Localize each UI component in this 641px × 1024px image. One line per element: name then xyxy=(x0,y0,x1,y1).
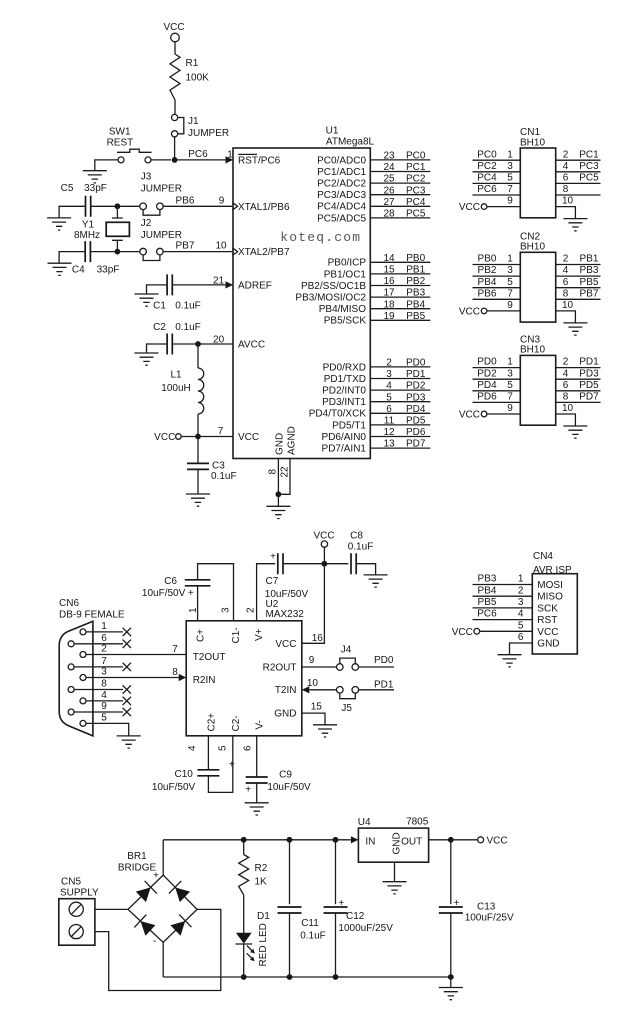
svg-text:CN4: CN4 xyxy=(533,551,553,562)
pin 11 stub / net PD5 xyxy=(370,424,430,426)
wire U4 OUT to VCC xyxy=(429,839,478,841)
connector CN5 body xyxy=(59,899,95,946)
svg-text:PD6: PD6 xyxy=(406,427,426,438)
pin 6 stub / net PD4 xyxy=(370,412,430,414)
wire C7 to VCC node xyxy=(283,563,348,565)
svg-text:11: 11 xyxy=(384,416,395,427)
wire C4 to ground xyxy=(59,252,85,264)
CN3 pin 4 / net PD3 xyxy=(556,378,601,380)
svg-text:PD6: PD6 xyxy=(477,392,497,403)
CN5 screw terminal 2 xyxy=(69,925,83,939)
arrow into T2IN xyxy=(302,686,310,693)
wire C6 bottom to pin1 xyxy=(197,586,199,621)
svg-text:9: 9 xyxy=(507,196,513,207)
svg-text:10uF/50V: 10uF/50V xyxy=(267,782,311,793)
svg-text:PC5: PC5 xyxy=(406,209,426,220)
svg-text:16: 16 xyxy=(383,276,395,287)
svg-text:7: 7 xyxy=(507,288,513,299)
svg-text:PB6: PB6 xyxy=(478,288,497,299)
svg-text:SUPPLY: SUPPLY xyxy=(60,888,99,899)
pin 14 stub / net PB0 xyxy=(370,261,430,263)
junction rail-C13 bottom xyxy=(448,974,454,980)
svg-text:18: 18 xyxy=(383,299,395,310)
wire C13 to rail xyxy=(450,913,452,977)
CN3 pin 7 / net PD6 xyxy=(473,401,521,403)
svg-text:PD7/AIN1: PD7/AIN1 xyxy=(322,444,367,455)
ground at C4 xyxy=(48,263,72,275)
svg-text:V+: V+ xyxy=(254,628,265,641)
svg-text:PD4: PD4 xyxy=(477,380,497,391)
CN4 pin 3 / net PB5 xyxy=(473,607,533,609)
junction rail-C11 bottom xyxy=(287,974,293,980)
svg-text:PC3: PC3 xyxy=(406,185,426,196)
svg-text:RST: RST xyxy=(537,615,557,626)
pin 15 stub / net PB1 xyxy=(370,273,430,275)
svg-text:J5: J5 xyxy=(341,703,352,714)
wire rail to C12 xyxy=(335,840,337,904)
svg-text:14: 14 xyxy=(383,253,395,264)
CN2 pin 7 / net PB6 xyxy=(473,298,521,300)
wire VCC node to pin16 xyxy=(302,564,325,644)
wire rail to ground xyxy=(450,977,452,988)
CN6 pin 4 contact xyxy=(80,698,86,704)
capacitor C6 xyxy=(185,580,211,586)
svg-text:33pF: 33pF xyxy=(84,183,107,194)
wire C10 to pin5 xyxy=(208,736,232,793)
ground at CN6 xyxy=(117,736,141,748)
wire CN6 pin 1 xyxy=(86,631,123,633)
svg-text:6: 6 xyxy=(243,745,254,751)
connector CN1 body xyxy=(520,148,555,218)
no-connect X on pin 9 xyxy=(123,708,131,716)
wire to U1 ground xyxy=(277,494,279,506)
svg-text:3: 3 xyxy=(101,667,107,678)
wire J5 to net PD1 xyxy=(359,689,395,691)
svg-text:PC2/ADC2: PC2/ADC2 xyxy=(317,179,366,190)
svg-text:BR1: BR1 xyxy=(127,851,147,862)
svg-text:PC0: PC0 xyxy=(406,151,426,162)
wire rail to R2 xyxy=(243,840,245,855)
svg-text:PC4: PC4 xyxy=(406,197,426,208)
svg-text:L1: L1 xyxy=(170,370,182,381)
svg-text:0.1uF: 0.1uF xyxy=(348,541,374,552)
wire R1 to J1 xyxy=(174,100,176,115)
svg-text:PB4: PB4 xyxy=(478,277,497,288)
svg-text:1: 1 xyxy=(518,574,524,585)
pin 17 stub / net PB3 xyxy=(370,296,430,298)
svg-text:100uF/25V: 100uF/25V xyxy=(465,913,514,924)
capacitor C5 xyxy=(86,196,91,217)
wire C4 to J2 xyxy=(90,251,140,253)
capacitor C13 xyxy=(439,907,463,913)
svg-text:PD1: PD1 xyxy=(406,369,426,380)
svg-text:33pF: 33pF xyxy=(97,264,120,275)
arrow into RST/PC6 xyxy=(226,156,234,163)
svg-text:+: + xyxy=(153,871,159,882)
diode BR1 D-topright xyxy=(169,881,191,903)
svg-text:28: 28 xyxy=(383,209,395,220)
svg-text:PC5/ADC5: PC5/ADC5 xyxy=(317,213,366,224)
svg-text:100K: 100K xyxy=(186,73,210,84)
svg-text:PB3/MOSI/OC2: PB3/MOSI/OC2 xyxy=(295,293,366,304)
svg-text:0.1uF: 0.1uF xyxy=(300,931,326,942)
pin 27 stub / net PC4 xyxy=(370,205,430,207)
wire VCC terminal to U1 pin7 xyxy=(181,436,233,438)
svg-text:26: 26 xyxy=(383,185,395,196)
svg-text:27: 27 xyxy=(383,197,395,208)
wire CN5 pin1 to bridge AC1 xyxy=(95,908,128,910)
svg-text:PB5: PB5 xyxy=(580,277,599,288)
pin 25 stub / net PC2 xyxy=(370,182,430,184)
svg-text:AVCC: AVCC xyxy=(238,340,265,351)
CN4 pin 1 / net PB3 xyxy=(473,584,533,586)
svg-text:PC2: PC2 xyxy=(477,161,497,172)
junction rail-C11 xyxy=(287,837,293,843)
svg-text:9: 9 xyxy=(219,195,225,206)
svg-text:+: + xyxy=(270,552,276,563)
svg-text:4: 4 xyxy=(518,609,524,620)
svg-text:3: 3 xyxy=(507,368,513,379)
svg-text:1: 1 xyxy=(507,254,513,265)
no-connect X on pin 8 xyxy=(123,685,131,693)
svg-text:RED LED: RED LED xyxy=(258,923,269,966)
svg-text:7: 7 xyxy=(172,644,178,655)
CN3 pin 10 to ground xyxy=(556,414,576,426)
svg-text:BH10: BH10 xyxy=(520,345,545,356)
pin 23 stub / net PC0 xyxy=(370,159,430,161)
svg-text:PD5: PD5 xyxy=(406,416,426,427)
op-amp U2 body (IC MAX232) xyxy=(186,621,302,736)
svg-text:PB6: PB6 xyxy=(176,195,195,206)
svg-text:VCC: VCC xyxy=(459,202,480,213)
svg-text:JUMPER: JUMPER xyxy=(141,184,182,195)
svg-text:3: 3 xyxy=(220,607,231,613)
svg-text:5: 5 xyxy=(518,620,524,631)
svg-text:SCK: SCK xyxy=(537,603,558,614)
svg-text:0.1uF: 0.1uF xyxy=(211,471,237,482)
wire DC+ rail xyxy=(163,839,351,841)
wire rail to C11 xyxy=(289,840,291,904)
svg-text:6: 6 xyxy=(563,277,569,288)
svg-text:PB4/MISO: PB4/MISO xyxy=(319,304,366,315)
jumper J5 xyxy=(340,693,356,699)
svg-text:PB4: PB4 xyxy=(478,585,497,596)
capacitor C9 xyxy=(246,777,268,783)
ground at CN4 xyxy=(498,655,522,667)
svg-text:7: 7 xyxy=(507,184,513,195)
svg-text:PC3: PC3 xyxy=(579,161,599,172)
svg-text:+: + xyxy=(229,759,235,770)
svg-text:C3: C3 xyxy=(212,461,225,472)
svg-text:C11: C11 xyxy=(301,918,319,929)
svg-text:VCC: VCC xyxy=(313,531,334,542)
svg-text:PB4: PB4 xyxy=(406,299,425,310)
svg-text:8: 8 xyxy=(563,392,569,403)
svg-text:J4: J4 xyxy=(341,644,352,655)
svg-text:+: + xyxy=(245,784,251,795)
pin 3 stub / net PD1 xyxy=(370,378,430,380)
svg-text:PC1: PC1 xyxy=(406,162,426,173)
connector CN4 body xyxy=(532,574,577,654)
svg-text:PB7: PB7 xyxy=(580,288,599,299)
svg-text:PC6: PC6 xyxy=(477,609,497,620)
arrow into ADREF xyxy=(226,281,234,288)
svg-text:8: 8 xyxy=(172,667,178,678)
svg-text:MISO: MISO xyxy=(537,592,563,603)
svg-text:Y1: Y1 xyxy=(82,220,95,231)
svg-text:PB3: PB3 xyxy=(580,265,599,276)
svg-text:ADREF: ADREF xyxy=(238,280,272,291)
svg-text:U1: U1 xyxy=(326,126,339,137)
svg-text:C7: C7 xyxy=(266,576,279,587)
svg-text:1: 1 xyxy=(507,357,513,368)
svg-text:2: 2 xyxy=(563,149,569,160)
svg-text:REST: REST xyxy=(107,138,134,149)
svg-text:6: 6 xyxy=(563,173,569,184)
pin 19 stub / net PB5 xyxy=(370,319,430,321)
svg-text:10uF/50V: 10uF/50V xyxy=(152,782,196,793)
VCC terminal mid xyxy=(321,541,327,547)
no-connect X on pin 7 xyxy=(123,663,131,671)
svg-text:4: 4 xyxy=(386,381,392,392)
CN2 pin 2 / net PB1 xyxy=(556,264,601,266)
svg-text:23: 23 xyxy=(383,151,395,162)
svg-text:koteq.com: koteq.com xyxy=(280,230,361,245)
pin 4 stub / net PD2 xyxy=(370,389,430,391)
svg-text:CN5: CN5 xyxy=(61,876,81,887)
wire CN6 pin 7 xyxy=(74,666,123,668)
wire C2 to ground xyxy=(147,344,168,353)
svg-text:2: 2 xyxy=(563,357,569,368)
jumper J2 xyxy=(143,255,160,261)
CN2 pin 3 / net PB2 xyxy=(473,275,521,277)
svg-text:2: 2 xyxy=(563,254,569,265)
wire VCC node to C3 xyxy=(197,437,199,464)
svg-text:PD3: PD3 xyxy=(579,368,599,379)
svg-text:V-: V- xyxy=(255,720,266,729)
svg-text:1: 1 xyxy=(101,621,107,632)
svg-text:0.1uF: 0.1uF xyxy=(175,300,201,311)
svg-text:4: 4 xyxy=(563,161,569,172)
ground at C5 xyxy=(47,218,71,230)
svg-text:PC1/ADC1: PC1/ADC1 xyxy=(317,167,366,178)
CN1 pin 10 to ground xyxy=(556,207,576,219)
jumper J3 xyxy=(143,210,160,216)
svg-text:6: 6 xyxy=(101,633,107,644)
svg-text:1: 1 xyxy=(188,607,199,613)
svg-text:VCC: VCC xyxy=(459,306,480,317)
svg-text:PB0: PB0 xyxy=(478,254,497,265)
svg-text:VCC: VCC xyxy=(452,627,473,638)
svg-text:J3: J3 xyxy=(141,172,152,183)
ground at U1 xyxy=(266,506,290,518)
junction GND/AGND xyxy=(276,491,282,497)
svg-text:C2: C2 xyxy=(153,322,166,333)
inductor L1 xyxy=(198,368,204,414)
svg-text:100uH: 100uH xyxy=(161,383,190,394)
wire C2 to U1 AVCC xyxy=(172,343,233,345)
svg-text:MAX232: MAX232 xyxy=(266,609,305,620)
svg-text:C6: C6 xyxy=(164,576,177,587)
svg-text:C5: C5 xyxy=(61,183,74,194)
svg-text:9: 9 xyxy=(309,655,315,666)
wire C6 top to pin3 xyxy=(198,564,234,621)
svg-text:D1: D1 xyxy=(257,911,270,922)
svg-text:PB7: PB7 xyxy=(176,240,195,251)
svg-text:RST/PC6: RST/PC6 xyxy=(238,155,281,166)
svg-text:2: 2 xyxy=(386,358,392,369)
svg-text:PB0: PB0 xyxy=(406,253,425,264)
CN6 pin 6 contact xyxy=(68,641,74,647)
CN3 pin 2 / net PD1 xyxy=(556,367,601,369)
wire pin4 down to C10 xyxy=(207,736,209,770)
svg-text:PC6: PC6 xyxy=(477,184,497,195)
svg-text:PD5: PD5 xyxy=(579,380,599,391)
pin 16 stub / net PB2 xyxy=(370,285,430,287)
svg-text:4: 4 xyxy=(563,368,569,379)
pin 12 stub / net PD6 xyxy=(370,436,430,438)
wire J2 to U1 XTAL2 xyxy=(163,251,232,253)
svg-text:VCC: VCC xyxy=(537,627,558,638)
svg-text:6: 6 xyxy=(386,404,392,415)
svg-text:PC5: PC5 xyxy=(579,173,599,184)
svg-text:PD5/T1: PD5/T1 xyxy=(332,420,366,431)
ground at CN2 xyxy=(563,323,587,335)
svg-text:MOSI: MOSI xyxy=(537,580,563,591)
svg-text:+: + xyxy=(188,588,194,599)
svg-text:PB2: PB2 xyxy=(478,265,497,276)
svg-text:PD2: PD2 xyxy=(406,381,426,392)
wire VCC terminal down xyxy=(323,547,325,563)
svg-text:PD0/RXD: PD0/RXD xyxy=(323,362,366,373)
arrow into R2IN xyxy=(179,674,187,681)
svg-text:PD3/INT1: PD3/INT1 xyxy=(322,397,366,408)
junction PC6 node xyxy=(172,157,178,163)
connector CN3 body xyxy=(520,355,555,425)
junction crystal top xyxy=(115,203,121,209)
svg-text:OUT: OUT xyxy=(401,837,422,848)
svg-text:4: 4 xyxy=(187,745,198,751)
bridge BR1 outline xyxy=(128,875,197,942)
capacitor C12 xyxy=(324,907,348,913)
op-amp U1 body (IC ATMega8L) xyxy=(233,148,370,459)
svg-text:5: 5 xyxy=(101,713,107,724)
svg-text:BRIDGE: BRIDGE xyxy=(118,863,157,874)
svg-text:12: 12 xyxy=(383,427,395,438)
svg-text:PC3/ADC3: PC3/ADC3 xyxy=(317,190,366,201)
svg-text:22: 22 xyxy=(279,466,290,478)
wire C5 to ground xyxy=(59,206,85,218)
jumper J4 xyxy=(340,658,356,664)
svg-text:15: 15 xyxy=(311,702,323,713)
svg-text:3: 3 xyxy=(507,161,513,172)
svg-text:PC0/ADC0: PC0/ADC0 xyxy=(317,155,366,166)
svg-text:10uF/50V: 10uF/50V xyxy=(142,588,186,599)
wire C9 to ground xyxy=(256,783,258,803)
CN1 pin 1 / net PC0 xyxy=(473,159,521,161)
svg-text:9: 9 xyxy=(507,403,513,414)
svg-text:5: 5 xyxy=(507,277,513,288)
CN2 pin 10 to ground xyxy=(556,311,576,323)
CN2 pin 5 / net PB4 xyxy=(473,287,521,289)
pin 18 stub / net PB4 xyxy=(370,308,430,310)
svg-text:R2IN: R2IN xyxy=(193,675,216,686)
junction VCC node mid xyxy=(322,561,328,567)
wire C8 to ground xyxy=(356,564,375,575)
wire R2 to D1 xyxy=(243,895,245,933)
svg-text:10: 10 xyxy=(215,240,227,251)
ground at C2 xyxy=(135,353,159,365)
svg-text:GND: GND xyxy=(275,433,286,455)
svg-text:5: 5 xyxy=(218,745,229,751)
svg-text:C2-: C2- xyxy=(231,715,242,731)
svg-text:C10: C10 xyxy=(175,769,194,780)
junction rail-R2 xyxy=(241,837,247,843)
svg-text:8: 8 xyxy=(563,288,569,299)
svg-text:PC4/ADC4: PC4/ADC4 xyxy=(317,202,366,213)
svg-text:5: 5 xyxy=(386,392,392,403)
junction AVCC node xyxy=(195,341,201,347)
svg-text:25: 25 xyxy=(383,174,395,185)
ground at C1 xyxy=(135,294,159,306)
svg-text:8: 8 xyxy=(101,679,107,690)
svg-text:7: 7 xyxy=(507,392,513,403)
ground at CN1 xyxy=(563,219,587,231)
svg-text:C1: C1 xyxy=(153,300,166,311)
svg-text:PD2: PD2 xyxy=(477,368,497,379)
svg-text:C8: C8 xyxy=(350,530,363,541)
CN3 pin 3 / net PD2 xyxy=(473,378,521,380)
arrow into 7805 IN xyxy=(351,836,359,843)
connector CN6 DB-9 outline xyxy=(59,621,93,736)
junction rail-C12 xyxy=(333,837,339,843)
svg-text:3: 3 xyxy=(518,597,524,608)
ground at supply rail xyxy=(439,988,463,1000)
svg-text:XTAL2/PB7: XTAL2/PB7 xyxy=(238,247,290,258)
wire CN6 pin 8 xyxy=(74,689,123,691)
svg-text:10: 10 xyxy=(562,403,574,414)
svg-text:C2+: C2+ xyxy=(207,713,218,732)
CN6 pin 9 contact xyxy=(68,709,74,715)
capacitor C3 xyxy=(187,463,209,469)
svg-text:VCC: VCC xyxy=(238,432,259,443)
CN2 pin 6 / net PB5 xyxy=(556,287,601,289)
svg-text:10: 10 xyxy=(562,196,574,207)
wire C3 to ground xyxy=(197,469,199,494)
wire ground rail xyxy=(163,976,451,978)
svg-text:PB5: PB5 xyxy=(406,311,425,322)
svg-text:JUMPER: JUMPER xyxy=(141,230,182,241)
CN1 pin 5 / net PC4 xyxy=(473,182,521,184)
svg-text:VCC: VCC xyxy=(154,432,175,443)
junction OUT-C13 xyxy=(448,837,454,843)
CN3 pin 6 / net PD5 xyxy=(556,390,601,392)
svg-text:C9: C9 xyxy=(279,770,292,781)
svg-text:PD4/T0/XCK: PD4/T0/XCK xyxy=(309,409,367,420)
svg-text:T2OUT: T2OUT xyxy=(193,652,226,663)
ground at CN3 xyxy=(563,426,587,438)
svg-text:PB1: PB1 xyxy=(580,254,599,265)
junction crystal bottom xyxy=(115,249,121,255)
svg-text:PD1: PD1 xyxy=(579,357,599,368)
LED emission arrows xyxy=(247,946,252,959)
wire C12 to rail xyxy=(335,913,337,977)
wire J3 to U1 XTAL1 xyxy=(163,205,232,207)
svg-text:SW1: SW1 xyxy=(109,127,131,138)
crystal Y1 xyxy=(112,206,123,251)
svg-text:PC4: PC4 xyxy=(477,173,497,184)
svg-text:PC2: PC2 xyxy=(406,174,426,185)
